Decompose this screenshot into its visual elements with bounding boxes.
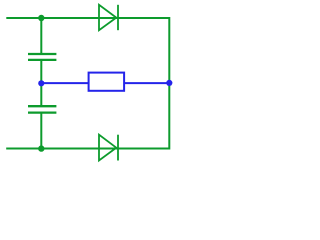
node A (green junction dot top)	[38, 15, 44, 21]
node C (blue junction dot left)	[38, 80, 44, 86]
wire: left vertical segment between C1 and C2	[40, 60, 42, 106]
capacitor C1	[28, 54, 56, 60]
resistor R1 (blue box)	[89, 73, 125, 91]
node B (green junction dot bottom)	[38, 145, 44, 151]
wire: outer loop top/right/bottom	[6, 18, 169, 149]
capacitor C2	[28, 106, 56, 112]
diode D2 (bottom)	[99, 135, 118, 161]
wire: left vertical segment top (node A to C1)	[40, 18, 42, 54]
diode D1 (top)	[99, 5, 118, 30]
wire: blue horizontal net	[41, 82, 169, 84]
node D (blue junction dot right)	[166, 80, 172, 86]
wire: left vertical segment bottom (C2 to node B)	[40, 113, 42, 149]
